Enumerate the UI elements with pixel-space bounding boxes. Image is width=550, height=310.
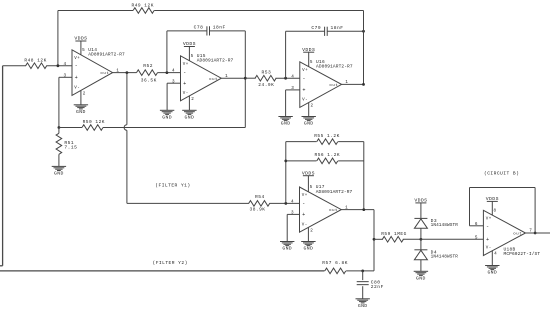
svg-text:out: out	[100, 72, 109, 76]
svg-text:R54: R54	[255, 194, 265, 200]
svg-text:-: -	[302, 76, 306, 82]
svg-text:4: 4	[291, 74, 294, 79]
svg-text:V-: V-	[302, 99, 308, 103]
svg-text:3: 3	[172, 79, 175, 84]
svg-text:V-: V-	[74, 87, 80, 91]
svg-text:R49 12K: R49 12K	[132, 2, 154, 8]
svg-text:2: 2	[310, 228, 313, 233]
svg-text:3: 3	[291, 86, 294, 91]
svg-text:V+: V+	[486, 218, 492, 222]
svg-text:4: 4	[494, 252, 497, 257]
svg-text:R50 12K: R50 12K	[83, 119, 105, 125]
svg-text:V-: V-	[183, 92, 189, 96]
svg-text:C78: C78	[194, 24, 204, 30]
svg-text:out: out	[209, 78, 218, 82]
svg-text:1N4148WSTR: 1N4148WSTR	[431, 223, 459, 228]
svg-text:5: 5	[310, 185, 313, 190]
svg-text:36.5K: 36.5K	[141, 77, 157, 83]
svg-text:GND: GND	[162, 115, 172, 121]
svg-text:GND: GND	[416, 276, 426, 282]
svg-text:4: 4	[64, 62, 67, 67]
svg-text:-: -	[486, 223, 490, 229]
svg-text:4: 4	[291, 200, 294, 205]
svg-text:out: out	[329, 209, 338, 213]
svg-text:V+: V+	[302, 69, 308, 73]
svg-text:V-: V-	[302, 223, 308, 227]
svg-text:out: out	[329, 84, 338, 88]
svg-text:R57 6.8K: R57 6.8K	[322, 260, 348, 266]
svg-text:22nF: 22nF	[371, 284, 384, 290]
svg-text:5: 5	[82, 48, 85, 53]
svg-text:GND: GND	[304, 121, 314, 127]
svg-text:-: -	[302, 201, 306, 207]
svg-text:(FILTER Y1): (FILTER Y1)	[155, 183, 190, 189]
svg-text:1: 1	[345, 80, 348, 85]
svg-text:7: 7	[529, 229, 532, 234]
svg-text:+: +	[302, 212, 306, 218]
svg-text:R53: R53	[262, 69, 272, 75]
svg-text:1N4148WSTR: 1N4148WSTR	[431, 254, 459, 259]
svg-text:6: 6	[475, 222, 478, 227]
svg-text:2: 2	[311, 104, 314, 109]
svg-text:18nF: 18nF	[213, 24, 226, 30]
svg-text:8: 8	[494, 208, 497, 213]
svg-text:V-: V-	[486, 247, 492, 251]
svg-text:AD8091ART2-R7: AD8091ART2-R7	[88, 52, 125, 58]
svg-text:2: 2	[83, 91, 86, 96]
svg-text:AD8091ART2-R7: AD8091ART2-R7	[197, 58, 234, 64]
svg-text:-: -	[75, 63, 79, 69]
svg-text:18nF: 18nF	[331, 25, 344, 31]
svg-text:+: +	[183, 81, 187, 87]
svg-text:R56 1.2K: R56 1.2K	[315, 152, 341, 158]
svg-text:V+: V+	[183, 63, 189, 67]
svg-text:24.9K: 24.9K	[258, 82, 274, 88]
svg-text:R55 1.2K: R55 1.2K	[314, 133, 340, 139]
svg-text:AD8091ART2-R7: AD8091ART2-R7	[316, 189, 353, 195]
svg-text:GND: GND	[281, 121, 291, 127]
svg-text:V+: V+	[74, 57, 80, 61]
svg-text:R59 1MEG: R59 1MEG	[381, 231, 407, 237]
svg-text:3: 3	[291, 211, 294, 216]
svg-text:2: 2	[191, 97, 194, 102]
svg-text:4: 4	[172, 68, 175, 73]
svg-text:(CIRCUIT B): (CIRCUIT B)	[484, 171, 519, 177]
svg-text:GND: GND	[54, 171, 64, 177]
svg-text:(FILTER Y2): (FILTER Y2)	[153, 260, 188, 266]
svg-text:R52: R52	[143, 63, 153, 69]
svg-text:GND: GND	[358, 303, 368, 309]
svg-text:1: 1	[116, 68, 119, 73]
svg-text:GND: GND	[304, 246, 314, 252]
svg-text:R48 12K: R48 12K	[24, 58, 46, 64]
svg-text:38.9K: 38.9K	[250, 207, 266, 213]
svg-text:GND: GND	[282, 246, 292, 252]
svg-text:7.15: 7.15	[64, 145, 77, 151]
svg-text:V+: V+	[302, 194, 308, 198]
svg-text:1: 1	[345, 205, 348, 210]
svg-text:out: out	[513, 233, 522, 237]
svg-text:+: +	[486, 237, 490, 243]
svg-text:MCP6022T-I/ST: MCP6022T-I/ST	[504, 251, 541, 257]
svg-text:+: +	[302, 88, 306, 94]
svg-text:5: 5	[475, 235, 478, 240]
svg-text:AD8091ART2-R7: AD8091ART2-R7	[316, 64, 353, 70]
svg-text:3: 3	[64, 73, 67, 78]
svg-text:GND: GND	[76, 109, 86, 115]
svg-text:5: 5	[191, 54, 194, 59]
svg-text:GND: GND	[185, 115, 195, 121]
svg-text:1: 1	[225, 74, 228, 79]
svg-text:GND: GND	[487, 270, 497, 276]
svg-text:-: -	[183, 70, 187, 76]
svg-text:5: 5	[310, 60, 313, 65]
svg-text:C79: C79	[311, 25, 321, 31]
svg-text:+: +	[75, 75, 79, 81]
